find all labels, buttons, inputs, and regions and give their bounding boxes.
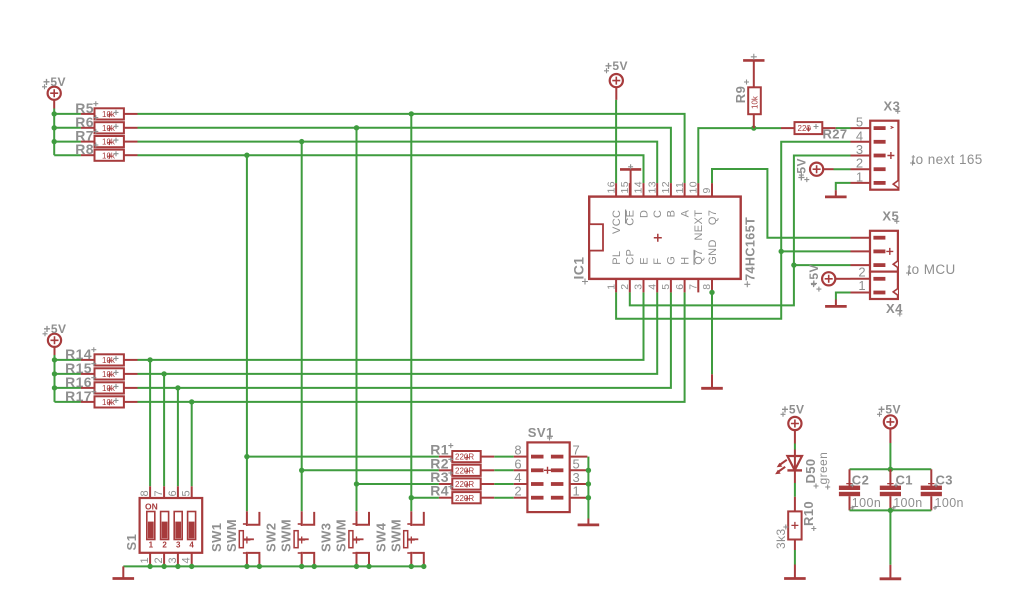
wire net R17 to IC pin 6 [138, 292, 685, 402]
wire GND net (IC pin8) [711, 292, 713, 374]
junction IC pin8 [709, 290, 714, 295]
wire cap top bus [850, 468, 932, 470]
wire net R5 to IC pin 11 [138, 114, 685, 183]
labels C2 C1 C3 [850, 473, 953, 488]
IC1 pin numbers [605, 181, 713, 290]
wire net R14 to IC pin 3 [138, 292, 644, 360]
switch SW4 SWM [404, 511, 424, 566]
label R9 [733, 80, 749, 104]
wire caps to ground [889, 510, 891, 564]
wire SW4 to resistor R4 [411, 497, 439, 499]
svg-text:C2: C2 [852, 473, 869, 488]
junction net row R8 / SW1 branch [244, 153, 249, 158]
svg-text:SWM: SWM [334, 519, 349, 552]
crosses at X4 +5V [811, 282, 821, 292]
junction net row R7 / SW2 branch [299, 139, 304, 144]
ground (LED chain) [784, 565, 806, 579]
junction PL/X5 [779, 249, 784, 254]
svg-text:8: 8 [701, 284, 713, 290]
svg-text:100n: 100n [893, 496, 922, 510]
svg-text:C1: C1 [896, 473, 913, 488]
svg-text:G: G [666, 256, 678, 265]
label X3 [884, 98, 901, 114]
resistor R8 10k [81, 150, 138, 161]
svg-text:SW1: SW1 [209, 523, 224, 552]
svg-text:SW3: SW3 [319, 523, 334, 552]
label R8 [75, 141, 98, 157]
svg-text:2: 2 [619, 284, 631, 290]
svg-text:S1: S1 [124, 534, 139, 551]
crosses at X3 +5V [799, 173, 809, 183]
wire R27 to X3 pin5 [836, 127, 851, 129]
capacitor C2 100n [839, 469, 860, 510]
label R15 [65, 360, 96, 376]
supply +5V (IC VCC) [604, 59, 628, 87]
labels D50 green [803, 452, 830, 490]
svg-text:F: F [652, 258, 664, 265]
supply +5V (top left) [42, 75, 66, 100]
svg-text:to next 165: to next 165 [912, 152, 983, 167]
svg-text:15: 15 [619, 181, 631, 193]
svg-text:CE: CE [625, 210, 637, 226]
label SV1 [528, 425, 554, 440]
label R2 [430, 455, 453, 471]
resistor R3 220R [439, 478, 494, 489]
X4 pin numbers [858, 265, 866, 294]
capacitor C3 100n [921, 469, 942, 510]
svg-text:7: 7 [688, 284, 700, 290]
ground bar (IC pin15 CE) [620, 164, 641, 196]
label R3 [430, 469, 453, 485]
svg-text:R17: R17 [65, 388, 92, 404]
svg-text:10k: 10k [750, 95, 759, 109]
X3 pin numbers [856, 115, 864, 185]
svg-text:R10: R10 [801, 501, 816, 526]
svg-text:R9: R9 [733, 86, 748, 103]
svg-text:to MCU: to MCU [908, 262, 956, 277]
wire VCC net [615, 87, 617, 183]
wire SW3 to resistor R3 [357, 483, 439, 485]
resistor R5 10k [81, 108, 138, 119]
svg-text:R4: R4 [430, 483, 449, 499]
wire +5V to resistor R6 [54, 127, 81, 129]
SV1 pin numbers [514, 443, 580, 499]
label to next 165 [910, 152, 983, 167]
wire net R15 to IC pin 4 [138, 292, 658, 374]
ground (caps) [880, 565, 902, 579]
IC1 pin names [611, 209, 719, 264]
resistor R7 10k [81, 136, 138, 147]
wire +5V to resistor R15 [55, 373, 81, 375]
junction dots on +5V bus [52, 111, 57, 144]
wire +5V to resistor R14 [55, 359, 81, 361]
svg-text:8: 8 [139, 490, 151, 497]
svg-text:SWM: SWM [388, 519, 403, 552]
ground (IC pin8) [701, 374, 723, 388]
junction R9/NEXT [751, 125, 756, 130]
wire R3 to SV1 [494, 483, 513, 485]
svg-text:2: 2 [162, 541, 167, 550]
svg-text:5: 5 [181, 490, 193, 497]
svg-text:IC1: IC1 [571, 257, 587, 280]
wire R2 to SV1 [494, 469, 513, 471]
svg-text:Q7: Q7 [707, 210, 719, 225]
wire R4 to SV1 [494, 497, 513, 499]
wire net R8 to IC pin 14 [138, 155, 644, 183]
wire +5V to resistor R8 [54, 154, 81, 156]
wire +5V stub to bus [53, 100, 55, 155]
wire +5V to resistor R17 [55, 401, 81, 403]
label R14 [65, 346, 96, 362]
wire R1 to SV1 [494, 456, 513, 458]
resistor R16 10k [81, 382, 138, 393]
supply bar (R9 top) [743, 54, 764, 61]
op-amp IC1 74HC165T body [589, 183, 741, 292]
svg-text:4: 4 [646, 284, 658, 290]
junction cap top [888, 467, 893, 472]
svg-text:3: 3 [633, 284, 645, 290]
svg-text:2: 2 [514, 484, 522, 499]
svg-text:CP: CP [625, 249, 637, 265]
svg-text:B: B [666, 210, 678, 218]
svg-text:1: 1 [605, 284, 617, 290]
supply +5V (caps) [877, 403, 901, 429]
svg-text:A: A [679, 209, 691, 217]
wire ground bus (bottom) [123, 565, 424, 567]
svg-text:3k3: 3k3 [774, 528, 788, 549]
svg-text:6: 6 [167, 490, 179, 497]
svg-text:1: 1 [858, 278, 866, 293]
junction R14 / S1 pin [147, 357, 152, 362]
ground (bottom left) [113, 566, 135, 578]
svg-text:3: 3 [176, 541, 181, 550]
connector X3 [851, 121, 899, 190]
resistor R14 10k [81, 354, 138, 365]
wire gnd to X3 pin1 [836, 183, 851, 190]
svg-text:SWM: SWM [224, 519, 239, 552]
svg-text:NEXT: NEXT [693, 210, 705, 241]
resistor R9 10k [748, 60, 761, 128]
svg-text:7: 7 [153, 490, 165, 497]
junction SW4 / R4 row [409, 495, 414, 500]
connector X5 [851, 231, 898, 272]
resistor R4 220R [439, 492, 494, 503]
svg-text:13: 13 [646, 181, 658, 193]
switch SW1 SWM [239, 511, 259, 566]
wire SW3 vertical [356, 128, 358, 512]
svg-text:14: 14 [633, 181, 645, 193]
svg-text:ON: ON [145, 501, 158, 511]
labels SW4 SWM [373, 519, 403, 552]
label to MCU [906, 262, 956, 277]
svg-text:SW2: SW2 [264, 523, 279, 552]
svg-text:6: 6 [674, 284, 686, 290]
supply +5V (X3 pin2) [795, 158, 824, 181]
label R17 [65, 388, 96, 404]
wire R14 to S1 pin [149, 360, 151, 486]
svg-text:74HC165T: 74HC165T [744, 217, 758, 281]
junction net row R5 / SW4 branch [409, 111, 414, 116]
svg-text:GND: GND [707, 239, 719, 265]
svg-text:R8: R8 [75, 141, 94, 157]
svg-text:green: green [816, 452, 830, 485]
wire +5V to resistor R5 [54, 113, 81, 115]
wire SW2 to resistor R2 [302, 469, 439, 471]
wire +5V to cap bus [889, 429, 891, 470]
wire +5V to X4 pin2 [835, 278, 850, 280]
label R10 [801, 501, 816, 531]
wire SW2 vertical [301, 142, 303, 512]
value labels 100n [850, 496, 964, 510]
junction R17 / S1 pin [189, 399, 194, 404]
svg-text:100n: 100n [935, 496, 964, 510]
wire R16 to S1 pin [177, 388, 179, 486]
svg-text:2: 2 [153, 557, 165, 564]
resistor R6 10k [81, 122, 138, 133]
resistor R17 10k [81, 396, 138, 407]
resistor R2 220R [439, 465, 494, 476]
ground (X4 pin1) [825, 300, 847, 307]
label R1 [430, 442, 453, 458]
svg-text:3: 3 [167, 557, 179, 564]
svg-text:1: 1 [573, 484, 581, 499]
junction R16 / S1 pin [175, 385, 180, 390]
junction cap bottom [888, 508, 893, 513]
ground (X3 pin1) [825, 190, 847, 197]
svg-text:C: C [652, 210, 664, 218]
junction SW1 / R1 row [244, 454, 249, 459]
dip-switch S1 [140, 486, 203, 566]
wire +5V to X3 pin2 [823, 168, 850, 170]
junction net row R6 / SW3 branch [354, 125, 359, 130]
junction dots (mid bus) [52, 357, 57, 390]
wire +5V stub to bus (mid) [54, 347, 56, 402]
connector SV1 [514, 442, 588, 512]
svg-text:SW4: SW4 [373, 522, 388, 552]
svg-text:12: 12 [660, 181, 672, 193]
wire +5V to resistor R7 [54, 141, 81, 143]
svg-text:4: 4 [189, 541, 194, 550]
junction dots ground bus [147, 564, 426, 569]
svg-text:1: 1 [149, 541, 154, 550]
wire NEXT net (pin10 to R27) [698, 128, 781, 183]
wire R10 to ground [794, 540, 796, 565]
supply +5V (mid left) [43, 322, 67, 347]
LED D50 [775, 450, 802, 475]
wire net R6 to IC pin 12 [138, 128, 671, 183]
wire SW1 to resistor R1 [247, 456, 439, 458]
svg-text:VCC: VCC [611, 210, 623, 234]
wire cap bottom bus [850, 509, 932, 511]
ground (SV1) [578, 519, 600, 525]
label 74HC165T [744, 217, 758, 288]
svg-text:PL: PL [611, 251, 623, 265]
svg-text:11: 11 [674, 182, 686, 194]
label 3k3 [774, 525, 788, 550]
label IC1 [571, 257, 589, 285]
wire LED to R10 [794, 470, 796, 512]
label R16 [65, 374, 96, 390]
svg-text:C3: C3 [936, 473, 953, 488]
resistor R15 10k [81, 368, 138, 379]
wire net R7 to IC pin 13 [138, 142, 658, 184]
wire SW1 vertical [246, 155, 248, 511]
wire net R16 to IC pin 5 [138, 292, 671, 388]
svg-text:5: 5 [660, 284, 672, 290]
supply +5V (LED) [781, 403, 805, 431]
resistor R27 220 [781, 122, 836, 134]
junction R15 / S1 pin [161, 371, 166, 376]
junction dots SV1 common [586, 468, 591, 501]
wire +5V to LED [794, 430, 796, 449]
wire +5V to resistor R16 [55, 387, 81, 389]
S1 pin numbers [139, 490, 193, 564]
switch SW3 SWM [349, 511, 369, 566]
labels SW2 SWM [264, 519, 294, 552]
svg-text:9: 9 [701, 187, 713, 193]
label R7 [75, 128, 98, 144]
labels SW1 SWM [209, 519, 239, 552]
svg-text:Q7: Q7 [693, 249, 705, 264]
svg-text:4: 4 [181, 557, 193, 564]
svg-text:D: D [638, 210, 650, 218]
label X4 [886, 301, 903, 317]
label R5 [75, 100, 98, 116]
resistor R10 3k3 [788, 511, 801, 539]
wire SV1 common to ground [587, 457, 589, 519]
supply +5V (X4 pin2) [807, 264, 835, 287]
switch SW2 SWM [294, 511, 314, 566]
labels SW3 SWM [319, 519, 349, 552]
wire CP net (IC pin2 - X3 pin3 - X5 pin1) [630, 156, 851, 306]
junction CP/X5 [791, 262, 796, 267]
svg-text:SWM: SWM [279, 519, 294, 552]
label R4 [430, 483, 453, 499]
svg-text:1: 1 [856, 169, 864, 184]
capacitor C1 100n [880, 469, 901, 510]
svg-text:H: H [679, 256, 691, 264]
wire R17 to S1 pin [191, 402, 193, 486]
resistor R1 220R [439, 451, 494, 462]
junction SW2 / R2 row [299, 468, 304, 473]
svg-text:100n: 100n [852, 496, 881, 510]
label R6 [75, 114, 98, 130]
label X5 [882, 208, 899, 224]
wire SW4 vertical [410, 114, 412, 511]
wire R15 to S1 pin [163, 374, 165, 486]
wire PL net (IC pin1 - X3 pin4 - X5 pin2) [616, 142, 850, 319]
connector X4 [851, 272, 898, 299]
svg-text:E: E [638, 257, 650, 265]
wire gnd to X4 pin1 [836, 293, 851, 300]
svg-text:1: 1 [139, 557, 151, 564]
junction SW3 / R3 row [354, 481, 359, 486]
wire Q7 net (IC pin9 - X5 pin3) [712, 169, 851, 238]
